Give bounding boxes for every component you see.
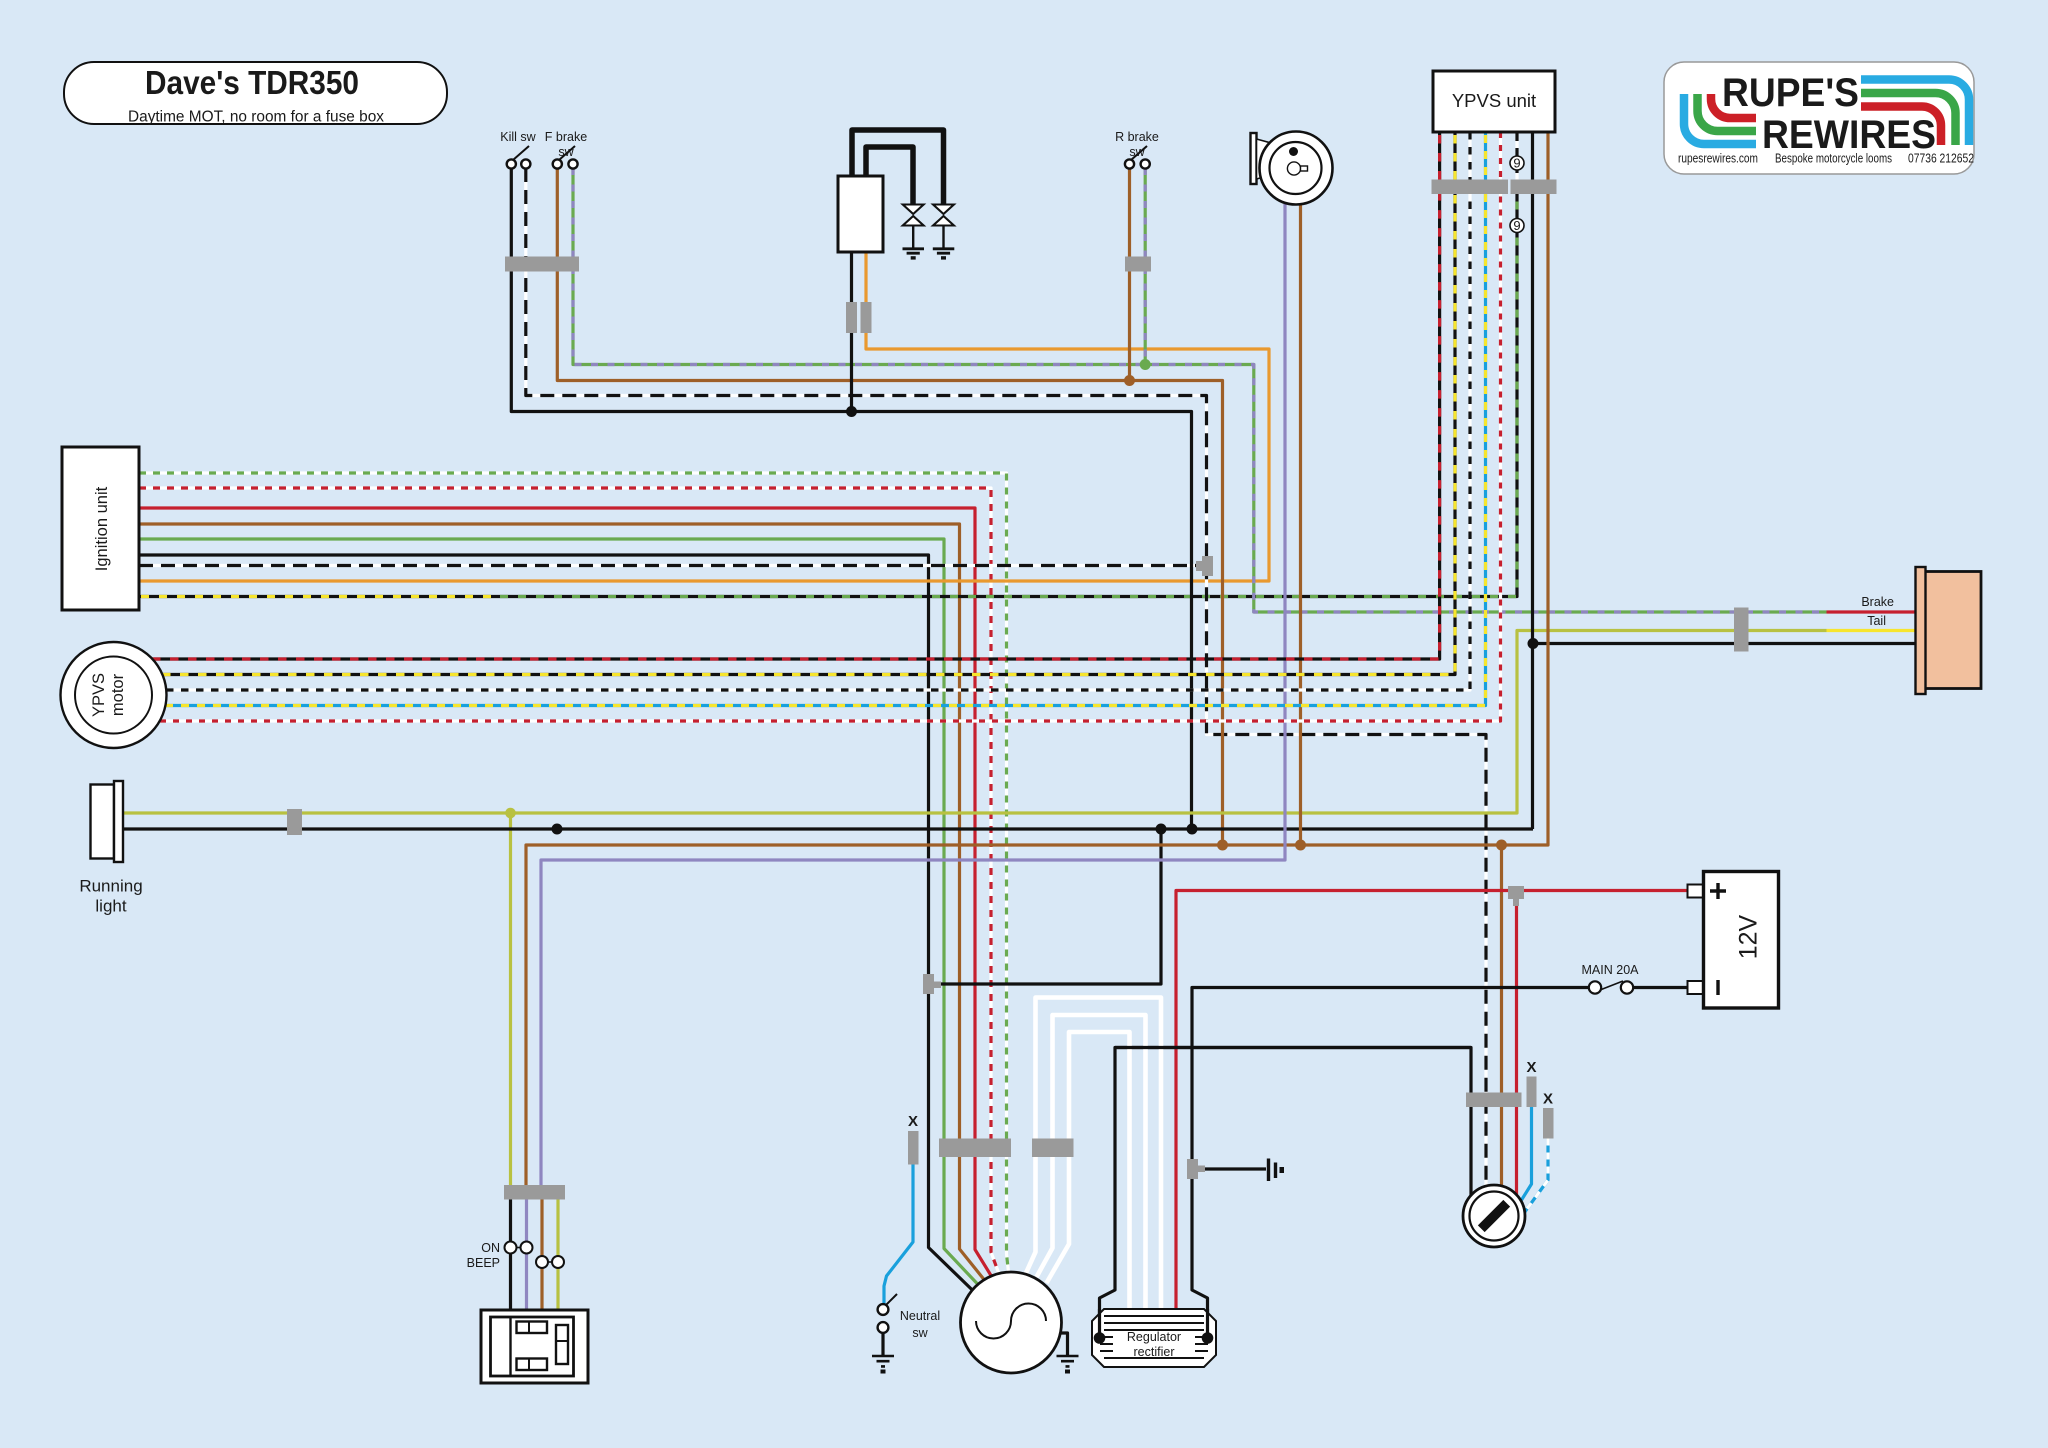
wire YPVS unit pin5 white/red dashed stub bbox=[1499, 132, 1502, 180]
connector ignition switch blue (X) bbox=[1527, 1077, 1537, 1108]
wire branch black from T-connector to running-light black net bbox=[934, 829, 1161, 984]
wire alternator ground lead bbox=[1053, 1333, 1068, 1356]
wire tail solid yellow to tail light bbox=[1827, 629, 1917, 632]
node black tail junction bbox=[1528, 638, 1539, 649]
title box Dave's TDR350 bbox=[64, 62, 447, 124]
connector ignition switch blue dashed (X) bbox=[1543, 1108, 1554, 1139]
wire brown branch to ignition switch connector bbox=[1500, 845, 1503, 1200]
running light symbol bbox=[91, 781, 124, 862]
svg-text:Brake: Brake bbox=[1861, 595, 1894, 609]
wire alternator white phase 3 lower bbox=[1047, 1157, 1070, 1283]
svg-text:Bespoke motorcycle looms: Bespoke motorcycle looms bbox=[1775, 151, 1892, 166]
wire black/green dashed (ignition wire 9 to YPVS unit) bbox=[496, 194, 1517, 597]
wire YPVS motor black/yellow dashed bbox=[162, 194, 1455, 675]
svg-text:Dave's TDR350: Dave's TDR350 bbox=[145, 65, 359, 102]
svg-text:X: X bbox=[1526, 1059, 1536, 1076]
svg-text:sw: sw bbox=[1129, 145, 1145, 159]
wire YPVS motor white/red dashed bbox=[160, 194, 1501, 721]
horn bbox=[1251, 132, 1333, 205]
wire battery positive red bbox=[1176, 891, 1688, 1310]
connector T plug on ignition black wire bbox=[923, 974, 941, 994]
wire YPVS motor blue/yellow dashed bbox=[165, 194, 1486, 706]
wire MAIN fuse black to regulator right terminal bbox=[1192, 988, 1589, 1339]
svg-text:9: 9 bbox=[1513, 218, 1520, 233]
wire handlebar cluster purple bbox=[525, 1200, 528, 1311]
CONNECTORS bbox=[287, 180, 1749, 1200]
wire neutral switch ground lead bbox=[881, 1332, 884, 1356]
node black running light branch bbox=[552, 824, 563, 835]
wire alternator white phase 3 bbox=[1069, 1032, 1130, 1309]
svg-text:RUPE'S: RUPE'S bbox=[1722, 71, 1859, 115]
ignition coil box bbox=[838, 176, 883, 252]
wire battery negative black to MAIN fuse bbox=[1633, 986, 1688, 989]
svg-text:motor: motor bbox=[109, 673, 127, 716]
wire YPVS unit pin3 black/white dashed stub bbox=[1468, 132, 1471, 180]
wire kill switch black/white dashed (to ignition switch) bbox=[526, 168, 1486, 1205]
battery 12V bbox=[1688, 872, 1779, 1009]
spark plug 1 bbox=[903, 205, 925, 260]
svg-text:YPVS: YPVS bbox=[90, 673, 108, 717]
connector neutral switch (X) bbox=[908, 1131, 919, 1165]
svg-text:light: light bbox=[95, 897, 126, 916]
svg-text:BEEP: BEEP bbox=[467, 1256, 500, 1270]
wire chartreuse branch down to handlebar switch connector bbox=[509, 813, 512, 1186]
wire YPVS motor black/white dashed bbox=[166, 194, 1470, 690]
wire R brake switch brown bbox=[1128, 168, 1131, 381]
neutral switch bbox=[878, 1294, 897, 1333]
svg-text:rupesrewires.com: rupesrewires.com bbox=[1678, 151, 1758, 166]
node coil black junction bbox=[846, 406, 857, 417]
node black net tee 1 bbox=[1156, 824, 1167, 835]
wire black overlay over white phases (regulator feed) bbox=[1115, 1046, 1471, 1049]
wire F brake switch brown bbox=[557, 168, 1222, 845]
wire ignition green solid (to alternator) bbox=[139, 539, 978, 1284]
svg-text:rectifier: rectifier bbox=[1134, 1345, 1175, 1359]
wire R brake switch green/purple dashed bbox=[1144, 168, 1147, 365]
node black net tee 2 bbox=[1187, 824, 1198, 835]
wire neutral switch blue bbox=[884, 1165, 913, 1305]
wire ignition black solid (to alternator) bbox=[139, 555, 972, 1290]
alternator circle bbox=[961, 1272, 1062, 1373]
ground regulator (sideways) bbox=[1269, 1159, 1285, 1182]
svg-text:9: 9 bbox=[1513, 156, 1520, 171]
svg-text:Tail: Tail bbox=[1867, 614, 1886, 628]
svg-text:MAIN 20A: MAIN 20A bbox=[1582, 963, 1640, 977]
svg-text:07736 212652: 07736 212652 bbox=[1908, 151, 1974, 166]
connector alternator main bbox=[939, 1139, 1011, 1158]
svg-text:X: X bbox=[1543, 1091, 1553, 1108]
svg-text:sw: sw bbox=[558, 145, 574, 159]
handlebar switch cluster box bbox=[481, 1310, 588, 1383]
svg-text:Kill sw: Kill sw bbox=[500, 130, 536, 144]
connector tail light loom bbox=[1734, 608, 1749, 652]
svg-text:R brake: R brake bbox=[1115, 130, 1159, 144]
wire ignition orange (to coil) bbox=[139, 252, 1269, 581]
ignition switch bbox=[1463, 1185, 1525, 1247]
svg-text:YPVS unit: YPVS unit bbox=[1452, 90, 1536, 111]
wire alternator white phase 1 lower bbox=[1026, 1157, 1036, 1273]
wire YPVS unit pin6 black/white dashed above connector bbox=[1515, 132, 1518, 180]
R brake switch bbox=[1125, 146, 1150, 169]
wire coil HT lead 2 thick bbox=[866, 147, 913, 204]
wire ignition green/white dashed (to alternator) bbox=[139, 473, 1009, 1272]
wire ignition switch blue/white dashed bbox=[1524, 1139, 1548, 1214]
node brown tee ignition switch branch bbox=[1496, 840, 1507, 851]
circled 9 upper bbox=[1510, 156, 1524, 171]
ground alternator bbox=[1057, 1356, 1079, 1374]
node regulator right terminal bbox=[1202, 1332, 1214, 1344]
wire ignition red solid (to alternator) bbox=[139, 508, 991, 1276]
connector YPVS unit right bbox=[1511, 180, 1557, 195]
connector YPVS unit left bbox=[1432, 180, 1509, 195]
ground neutral switch bbox=[872, 1356, 894, 1374]
node brown tee horn bbox=[1295, 840, 1306, 851]
wire YPVS unit black (pin7) down to tail net bbox=[1531, 132, 1534, 829]
connector ignition switch main bbox=[1466, 1093, 1522, 1108]
connector T plug regulator ground bbox=[1187, 1159, 1205, 1179]
ignition unit box bbox=[62, 447, 139, 610]
wire ignition black/yellow dashed segment bbox=[139, 595, 496, 598]
connector handlebar cluster bbox=[504, 1185, 565, 1200]
wire brake solid red to tail light bbox=[1827, 610, 1917, 613]
wire ignition black/white dashed to gray plug bbox=[139, 564, 1197, 567]
connector battery red feed bbox=[1508, 886, 1524, 906]
wire horn brown bbox=[1299, 204, 1302, 845]
wire alternator white phase 2 lower bbox=[1037, 1157, 1053, 1277]
node regulator left terminal bbox=[1094, 1332, 1106, 1344]
wire YPVS unit brown (pin8) supply bbox=[526, 132, 1548, 1186]
BEEP switch circles bbox=[536, 1256, 564, 1268]
spark plug 2 bbox=[933, 205, 955, 260]
wire alternator white phase 2 bbox=[1053, 1015, 1146, 1309]
wire YPVS unit pin1 black/red dashed stub bbox=[1438, 132, 1441, 180]
YPVS unit box bbox=[1433, 71, 1555, 132]
connector coil black lead bbox=[846, 302, 857, 333]
svg-text:Neutral: Neutral bbox=[900, 1309, 940, 1323]
connector kill/F-brake switches bbox=[505, 257, 579, 272]
wire F brake switch green/purple dashed (brake feed) bbox=[573, 168, 1827, 612]
wire running light chartreuse (tail feed) bbox=[122, 631, 1827, 814]
wire handlebar cluster black bbox=[509, 1200, 512, 1311]
connector running light bbox=[287, 809, 302, 835]
wire running light black bbox=[122, 827, 1533, 830]
F brake switch bbox=[553, 146, 578, 169]
node chartreuse branch bbox=[505, 808, 516, 819]
node R brake brown tee bbox=[1124, 375, 1135, 386]
svg-text:Regulator: Regulator bbox=[1127, 1330, 1181, 1344]
kill switch bbox=[507, 146, 531, 169]
wire regulator left terminal black to ignition switch bbox=[1100, 1048, 1472, 1339]
wire ignition red/white dashed (to alternator) bbox=[139, 488, 999, 1274]
node brown tee kill side bbox=[1217, 840, 1228, 851]
svg-text:12V: 12V bbox=[1735, 914, 1763, 959]
wire coil primary black bbox=[850, 252, 853, 412]
ON switch circles bbox=[505, 1242, 533, 1254]
svg-text:sw: sw bbox=[912, 1326, 928, 1340]
wire coil HT lead 1 thick bbox=[852, 130, 944, 204]
svg-text:F brake: F brake bbox=[545, 130, 587, 144]
connector R brake switch bbox=[1125, 257, 1151, 272]
wire black tail light feed bbox=[1533, 642, 1916, 645]
wire handlebar cluster chartreuse bbox=[556, 1200, 559, 1311]
tail light symbol bbox=[1916, 567, 1982, 694]
svg-text:Ignition unit: Ignition unit bbox=[93, 486, 111, 571]
wire alternator white phase 1 bbox=[1036, 998, 1162, 1310]
wire horn purple bbox=[541, 204, 1285, 1186]
wire kill switch black bbox=[511, 168, 1191, 829]
YPVS motor circle bbox=[61, 642, 167, 748]
connector coil orange lead bbox=[861, 302, 872, 333]
logo box Rupe's Rewires bbox=[1664, 62, 1974, 174]
wire YPVS unit pin2 black/yellow dashed stub bbox=[1453, 132, 1456, 180]
connector alternator white phases bbox=[1032, 1139, 1074, 1158]
node R brake green/purple tee bbox=[1140, 359, 1151, 370]
circled 9 lower bbox=[1510, 218, 1524, 233]
svg-text:Running: Running bbox=[79, 877, 142, 896]
wire YPVS unit pin4 blue/yellow dashed stub bbox=[1484, 132, 1487, 180]
MAIN 20A fuse bbox=[1589, 981, 1633, 994]
wire ignition brown solid (to alternator) bbox=[139, 524, 984, 1280]
regulator rectifier box bbox=[1092, 1309, 1216, 1367]
svg-text:ON: ON bbox=[481, 1241, 500, 1255]
connector plug on ignition dashed wire bbox=[1196, 556, 1213, 576]
wire ignition switch blue solid bbox=[1522, 1107, 1532, 1200]
wire YPVS motor black/red dashed bbox=[152, 194, 1440, 659]
svg-text:Daytime MOT, no room for a fus: Daytime MOT, no room for a fuse box bbox=[128, 109, 384, 126]
wire handlebar cluster brown bbox=[540, 1200, 543, 1311]
wire regulator ground black bbox=[1198, 1167, 1266, 1170]
svg-text:X: X bbox=[908, 1113, 918, 1130]
wire red branch to ignition switch bbox=[1515, 891, 1518, 1209]
